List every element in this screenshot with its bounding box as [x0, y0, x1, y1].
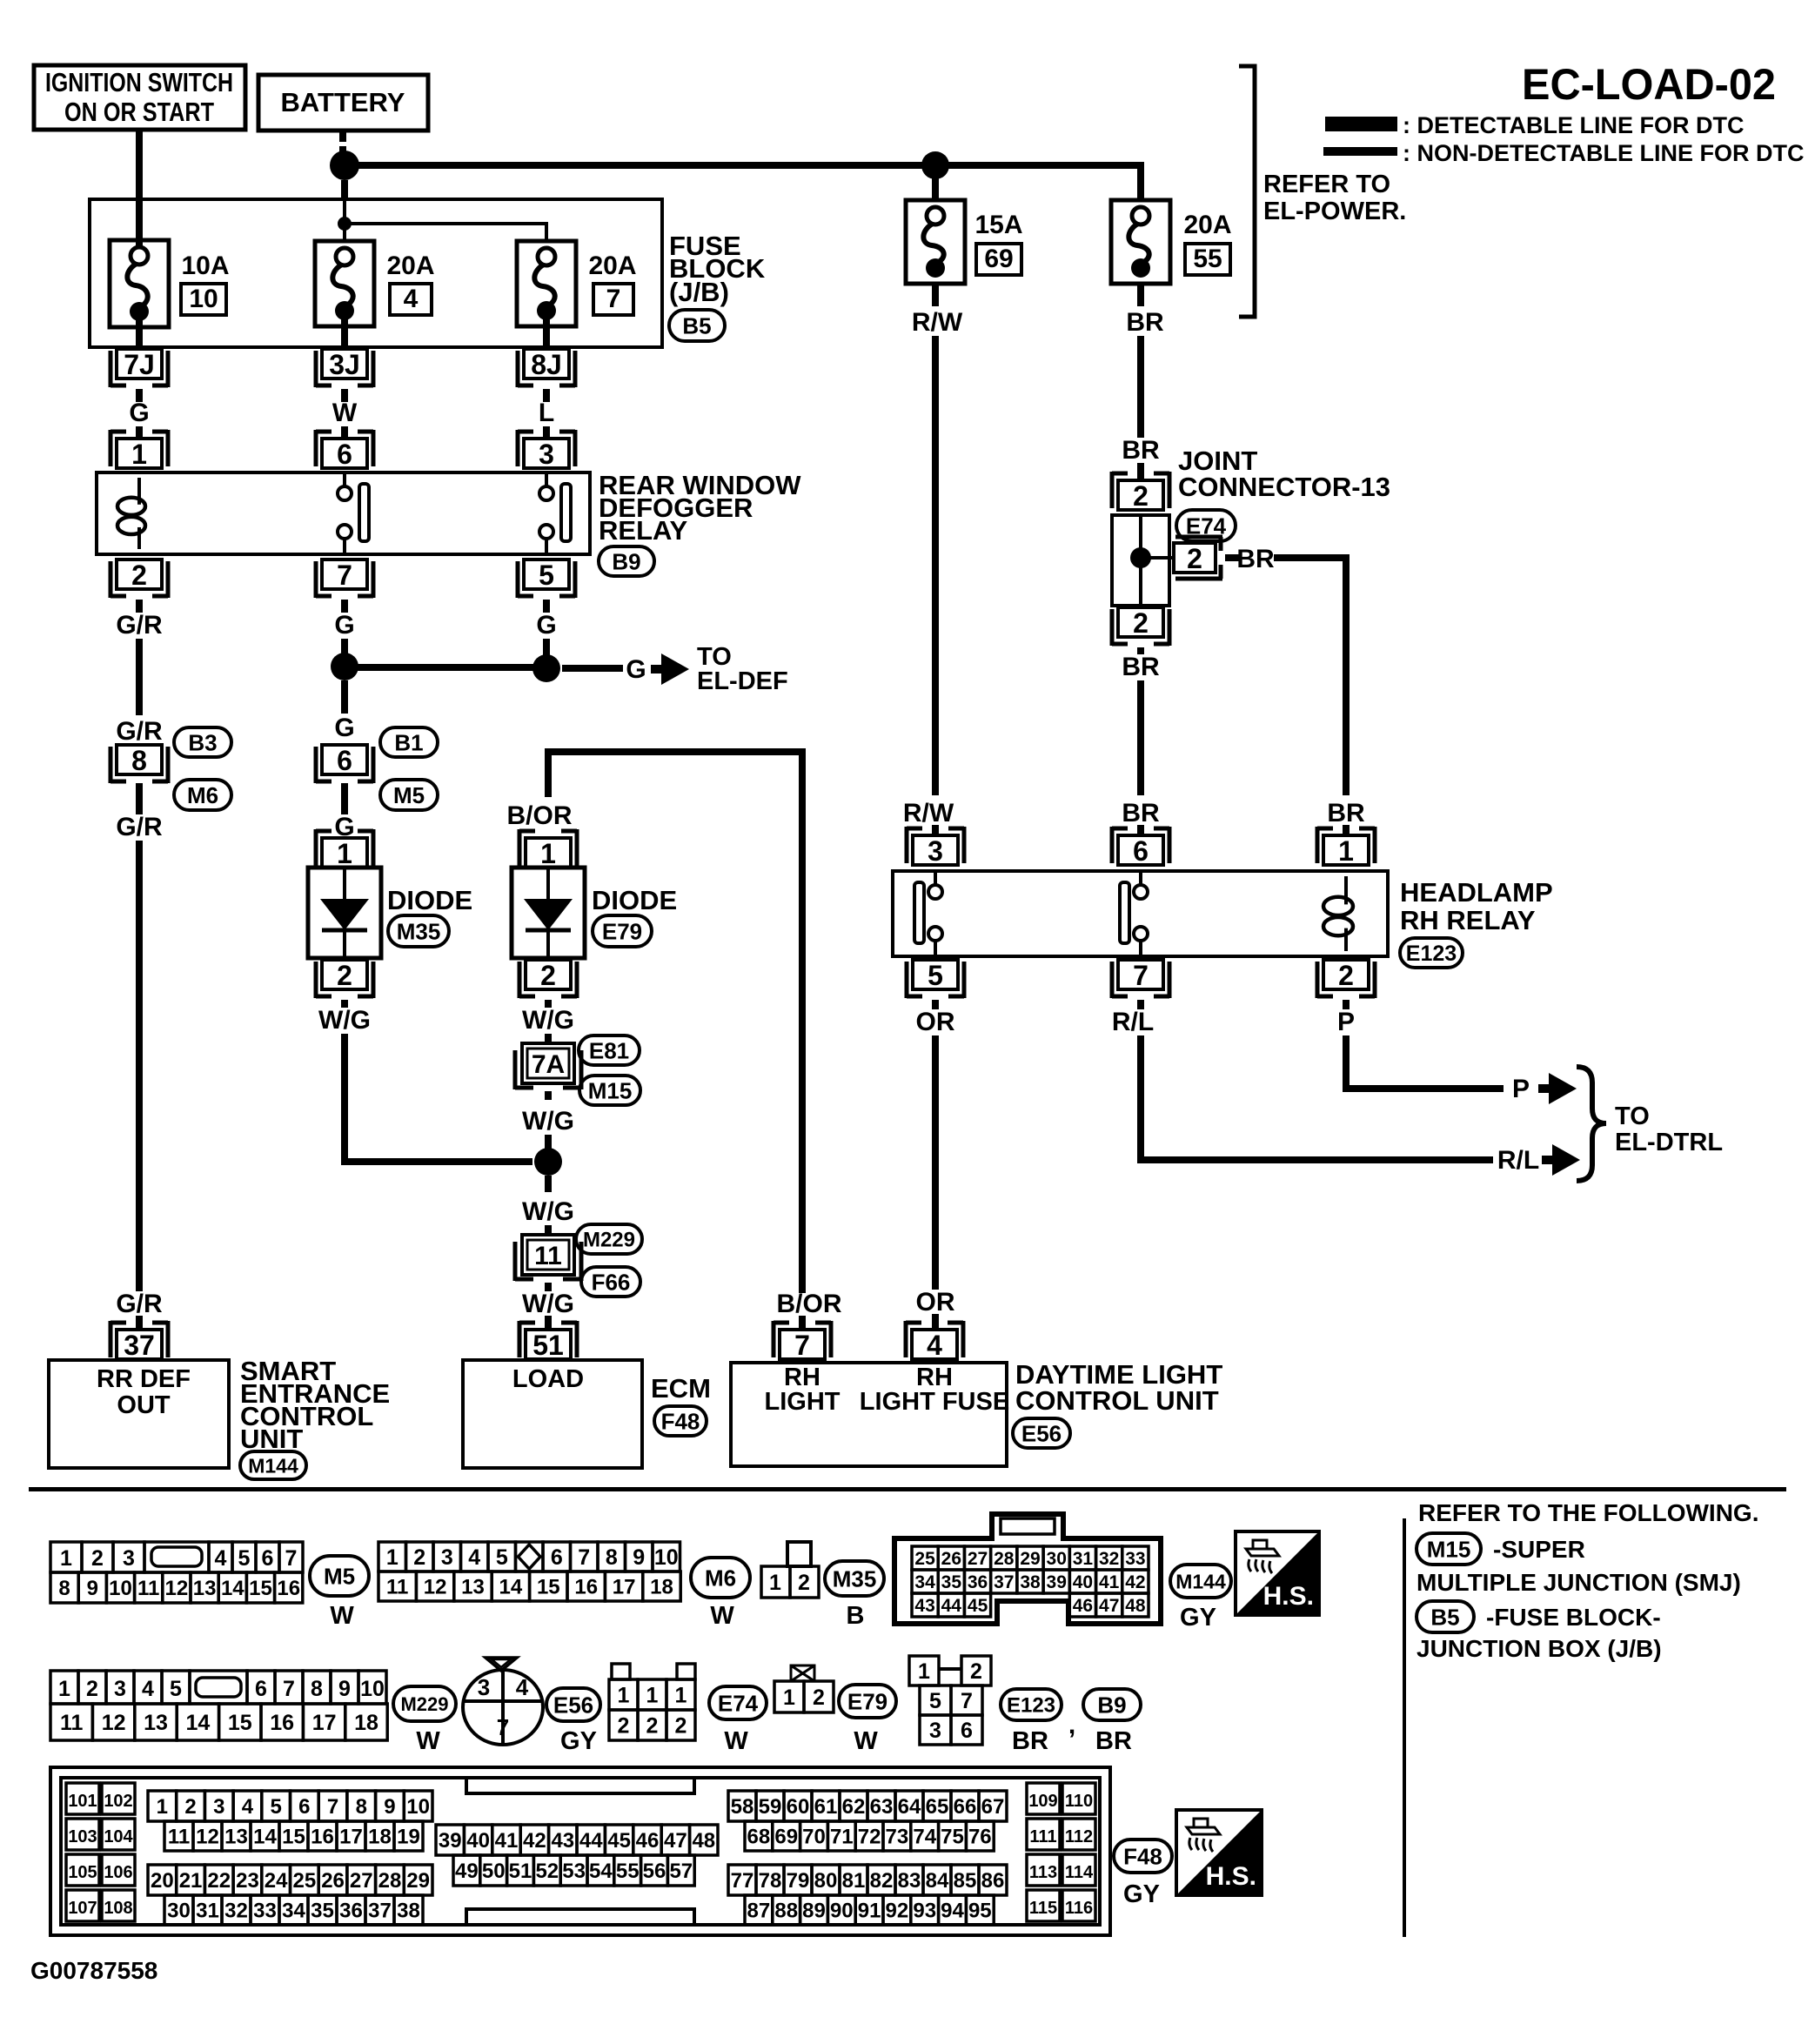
wire pin2 stub	[136, 600, 143, 613]
svg-text:112: 112	[1065, 1827, 1093, 1846]
oval E56 view	[546, 1688, 600, 1721]
svg-text:E56: E56	[553, 1692, 593, 1718]
legend non-detectable bar	[1323, 147, 1397, 156]
svg-text:67: 67	[981, 1795, 1005, 1819]
svg-text:W: W	[416, 1727, 440, 1755]
wire ignition to fuse block	[136, 130, 143, 249]
fuse 20A 55 label	[1183, 211, 1231, 275]
svg-text:P: P	[1512, 1075, 1530, 1103]
fuse block box J/B	[90, 199, 662, 347]
svg-text:EL-DTRL: EL-DTRL	[1615, 1129, 1723, 1156]
svg-text:31: 31	[1073, 1549, 1094, 1569]
svg-text:11: 11	[60, 1711, 84, 1735]
svg-text:70: 70	[802, 1826, 826, 1849]
svg-text:G: G	[626, 655, 646, 684]
connector pin 2 headlamp	[1317, 960, 1375, 998]
connector joint bottom 2	[1112, 607, 1169, 646]
svg-text:M35: M35	[397, 918, 441, 944]
defogger relay label	[599, 470, 801, 546]
oval M5 view	[310, 1556, 369, 1596]
ecm load label	[512, 1365, 584, 1393]
wire stub below 11	[545, 1283, 552, 1291]
svg-text:E74: E74	[718, 1690, 759, 1716]
svg-text:45: 45	[968, 1596, 988, 1616]
svg-text:GY: GY	[1123, 1880, 1160, 1908]
svg-text:1: 1	[918, 1659, 930, 1684]
svg-text:ON OR START: ON OR START	[64, 97, 214, 127]
svg-text:16: 16	[270, 1711, 294, 1735]
svg-text:: DETECTABLE LINE FOR DTC: : DETECTABLE LINE FOR DTC	[1403, 112, 1744, 138]
svg-text:26: 26	[321, 1869, 345, 1893]
bracket refer to el-power	[1239, 66, 1255, 317]
connector 7 daytime	[774, 1321, 831, 1361]
svg-text:1: 1	[675, 1684, 687, 1708]
svg-text:79: 79	[787, 1869, 810, 1893]
junction dot joint	[1130, 547, 1151, 568]
svg-text:BR: BR	[1095, 1727, 1132, 1755]
svg-text:3: 3	[123, 1546, 135, 1571]
connector view M144	[894, 1514, 1161, 1624]
svg-text:2: 2	[1338, 960, 1354, 991]
connector pin 3 relay	[518, 430, 575, 470]
svg-text:L: L	[539, 399, 554, 427]
svg-text:BR: BR	[1126, 308, 1164, 337]
svg-text:68: 68	[747, 1826, 771, 1849]
svg-text:49: 49	[455, 1860, 479, 1883]
svg-text:30: 30	[167, 1900, 191, 1923]
svg-text:7: 7	[578, 1545, 590, 1570]
connector pin2 diode E79	[519, 960, 577, 998]
label W/G E79 3	[522, 1197, 574, 1226]
svg-text:E79: E79	[602, 918, 642, 944]
svg-text:9: 9	[384, 1795, 395, 1819]
wire stub 7J	[136, 389, 143, 402]
label W under E74	[724, 1727, 748, 1755]
wire R/L corner	[1137, 1035, 1493, 1163]
smart entrance label	[240, 1356, 390, 1454]
svg-text:103: 103	[68, 1827, 97, 1846]
svg-text:69: 69	[774, 1826, 798, 1849]
svg-text:EC-LOAD-02: EC-LOAD-02	[1522, 60, 1776, 109]
svg-text:14: 14	[221, 1577, 244, 1600]
svg-text:BR: BR	[1122, 653, 1160, 681]
diode M35 label	[387, 885, 472, 915]
svg-text:REFER TO THE FOLLOWING.: REFER TO THE FOLLOWING.	[1418, 1499, 1758, 1526]
wire P corner	[1343, 1035, 1504, 1092]
svg-text:B/OR: B/OR	[507, 801, 573, 830]
svg-text:18: 18	[354, 1711, 378, 1735]
svg-text:77: 77	[731, 1869, 754, 1893]
label OR bottom	[916, 1288, 955, 1317]
wire into fuse 4 thin	[343, 229, 346, 243]
svg-text:B5: B5	[1430, 1604, 1459, 1630]
svg-text:M144: M144	[1175, 1570, 1226, 1592]
svg-text:6: 6	[1133, 835, 1149, 867]
svg-text:G: G	[129, 399, 149, 427]
connector pin 7 relay	[316, 560, 373, 598]
label G/R col A 1	[116, 611, 163, 640]
svg-text:5: 5	[929, 1689, 941, 1713]
svg-text:7: 7	[497, 1714, 509, 1740]
connector 7J	[111, 349, 168, 387]
wire stub joint right	[1225, 554, 1239, 561]
oval B9 view	[1083, 1689, 1141, 1720]
svg-text:2: 2	[646, 1714, 659, 1739]
svg-text:3: 3	[213, 1795, 224, 1819]
label BR top	[1126, 308, 1164, 337]
svg-text:5: 5	[238, 1546, 251, 1571]
svg-text:12: 12	[165, 1577, 189, 1600]
svg-text:86: 86	[981, 1869, 1005, 1893]
svg-text:6: 6	[255, 1677, 267, 1701]
svg-text:9: 9	[87, 1577, 98, 1600]
svg-text:78: 78	[759, 1869, 782, 1893]
label W col B	[332, 399, 358, 427]
smj text	[1417, 1569, 1741, 1596]
svg-text:DIODE: DIODE	[592, 885, 677, 915]
wire stub to pin4	[932, 1314, 939, 1330]
svg-text:16: 16	[574, 1576, 598, 1599]
oval E74 view	[709, 1686, 767, 1719]
connector pin 2 relay	[111, 560, 168, 598]
svg-text:58: 58	[731, 1795, 754, 1819]
svg-text:6: 6	[337, 745, 352, 776]
wire inside block col B thin	[343, 199, 346, 218]
svg-text:2: 2	[540, 960, 556, 991]
svg-text:1: 1	[783, 1685, 795, 1710]
svg-text:B/OR: B/OR	[777, 1290, 842, 1318]
svg-text:W: W	[724, 1727, 748, 1755]
label G/R col A 4	[116, 1290, 163, 1318]
svg-text:M6: M6	[705, 1565, 736, 1591]
svg-text:1: 1	[646, 1684, 659, 1708]
svg-text:8: 8	[131, 745, 147, 776]
svg-text:7: 7	[794, 1330, 810, 1361]
arrow P	[1538, 1073, 1577, 1104]
svg-text:111: 111	[1029, 1827, 1056, 1846]
wire fuse3 to 8J	[543, 319, 550, 349]
svg-text:59: 59	[759, 1795, 782, 1819]
svg-text:R/W: R/W	[912, 308, 963, 337]
svg-text:44: 44	[941, 1596, 962, 1616]
svg-text:2: 2	[1133, 480, 1149, 512]
svg-text:E123: E123	[1007, 1694, 1055, 1718]
connector joint top 2	[1112, 472, 1169, 512]
wire G/R down colA	[136, 639, 143, 715]
wire BR to joint	[1137, 336, 1144, 438]
svg-text:105: 105	[68, 1863, 97, 1882]
wire BR corner right	[1274, 554, 1350, 795]
label R/W bottom	[903, 799, 954, 828]
label B/OR bottom	[777, 1290, 842, 1318]
svg-text:JUNCTION BOX (J/B): JUNCTION BOX (J/B)	[1417, 1635, 1662, 1662]
label P arrow	[1512, 1075, 1530, 1103]
wire stub below 8	[136, 783, 143, 814]
svg-text:6: 6	[337, 439, 352, 470]
wire fuse1 to 7J	[136, 320, 143, 349]
svg-text:40: 40	[466, 1829, 490, 1853]
svg-text:LIGHT: LIGHT	[765, 1388, 841, 1416]
fuse 15A 69	[906, 200, 965, 284]
svg-text:18: 18	[368, 1826, 392, 1849]
label R/L arrow	[1497, 1146, 1539, 1175]
svg-text:4: 4	[927, 1330, 942, 1361]
svg-text:40: 40	[1073, 1572, 1093, 1592]
oval E81	[579, 1035, 640, 1065]
svg-text:F48: F48	[1123, 1843, 1162, 1869]
svg-text:31: 31	[196, 1900, 219, 1923]
label G col B 1	[334, 611, 354, 640]
svg-text:HEADLAMP: HEADLAMP	[1400, 877, 1553, 908]
svg-text:74: 74	[913, 1826, 936, 1849]
connector pin1 diode M35	[316, 829, 373, 869]
svg-text:20A: 20A	[588, 251, 636, 280]
svg-text:3: 3	[441, 1545, 453, 1570]
svg-text:101: 101	[68, 1792, 97, 1811]
svg-text:W: W	[330, 1602, 354, 1630]
wire stub to 51	[545, 1316, 552, 1330]
svg-text:M5: M5	[324, 1563, 355, 1589]
wire G down to dot colB	[341, 639, 348, 654]
oval M5 small	[380, 780, 438, 810]
branch wire to fuse 7 thin	[345, 222, 546, 243]
svg-text:10A: 10A	[181, 251, 229, 280]
svg-text:5: 5	[928, 960, 943, 991]
svg-text:5: 5	[539, 560, 554, 591]
svg-text:114: 114	[1065, 1863, 1094, 1882]
svg-text:11: 11	[168, 1826, 190, 1849]
connector 8J	[518, 349, 575, 387]
connector view F48	[50, 1767, 1110, 1935]
svg-text:5: 5	[170, 1677, 182, 1701]
wire stub to 37	[136, 1316, 143, 1330]
svg-text:B: B	[847, 1602, 865, 1630]
oval E56 unit	[1013, 1418, 1070, 1448]
svg-text:2: 2	[675, 1714, 687, 1739]
svg-text:M144: M144	[248, 1454, 298, 1477]
connector view E123	[909, 1656, 991, 1745]
label G col C 1	[536, 611, 556, 640]
svg-text:83: 83	[898, 1869, 921, 1893]
connector pin 1 headlamp	[1317, 827, 1375, 867]
wire bus down to fuse 55	[1137, 165, 1144, 202]
svg-text:2: 2	[970, 1659, 982, 1684]
svg-text:8: 8	[58, 1577, 70, 1600]
junction dot G colC	[532, 654, 560, 682]
jb text	[1417, 1635, 1662, 1662]
svg-text:G/R: G/R	[116, 717, 163, 746]
svg-text:8: 8	[606, 1545, 618, 1570]
svg-text:88: 88	[774, 1900, 798, 1923]
daytime rh light fuse label	[860, 1364, 1009, 1416]
svg-text:,: ,	[1068, 1711, 1075, 1739]
svg-text:89: 89	[802, 1900, 826, 1923]
svg-text:REFER TO: REFER TO	[1263, 171, 1390, 198]
connector view E79	[774, 1665, 834, 1712]
svg-text:2: 2	[184, 1795, 196, 1819]
svg-text:1: 1	[769, 1571, 781, 1595]
connector 8 B3/M6	[111, 745, 168, 783]
svg-text:3: 3	[928, 835, 943, 867]
connector pin 6 relay	[316, 430, 373, 470]
svg-text:OR: OR	[916, 1288, 955, 1317]
wire stub fuse55	[1137, 284, 1144, 306]
svg-text:28: 28	[994, 1549, 1015, 1569]
svg-text:12: 12	[424, 1576, 447, 1599]
svg-text:54: 54	[589, 1860, 613, 1883]
title EC-LOAD-02	[1522, 60, 1776, 109]
wire stub joint bottom	[1137, 647, 1144, 654]
joint connector text	[1178, 446, 1390, 502]
svg-text:E123: E123	[1406, 942, 1457, 966]
svg-text:7: 7	[327, 1795, 338, 1819]
svg-text:5: 5	[496, 1545, 508, 1570]
legend non-detectable text	[1403, 140, 1804, 166]
svg-text:8: 8	[311, 1677, 323, 1701]
svg-text:BR: BR	[1327, 799, 1365, 828]
wire W/G horizontal to dot	[341, 1158, 532, 1165]
vertical divider	[1403, 1518, 1406, 1937]
svg-text:10: 10	[654, 1545, 679, 1570]
svg-text:113: 113	[1029, 1863, 1057, 1882]
oval E123 relay	[1400, 938, 1463, 968]
fuse block oval B5	[669, 310, 725, 341]
svg-text:55: 55	[1193, 245, 1222, 273]
connector view M229	[50, 1671, 387, 1740]
svg-text:13: 13	[461, 1576, 485, 1599]
svg-text:E81: E81	[589, 1037, 629, 1063]
connector pin 5 headlamp	[907, 960, 964, 998]
label W under M6	[710, 1602, 734, 1630]
svg-text:1: 1	[386, 1545, 398, 1570]
svg-text:2: 2	[86, 1677, 98, 1701]
svg-text:H.S.: H.S.	[1263, 1582, 1314, 1611]
wire battery to junction	[339, 131, 346, 155]
svg-text:46: 46	[1073, 1596, 1093, 1616]
svg-text:39: 39	[1047, 1572, 1067, 1592]
svg-text:3: 3	[539, 439, 554, 470]
wire fuse2 to 3J	[341, 319, 348, 349]
wire bus horizontal	[352, 162, 1144, 169]
svg-text:LIGHT FUSE: LIGHT FUSE	[860, 1388, 1009, 1416]
fuse block label	[669, 231, 766, 307]
connector pin 7 headlamp	[1112, 960, 1169, 998]
wire stub below M35	[341, 1000, 348, 1008]
svg-text:20A: 20A	[386, 251, 434, 280]
connector 6 B1/M5	[316, 745, 373, 783]
connector pin2 diode M35	[316, 960, 373, 998]
wire G junction horizontal	[345, 664, 546, 671]
svg-text:G: G	[334, 611, 354, 640]
svg-text:F48: F48	[661, 1408, 700, 1434]
oval M229 view	[393, 1686, 456, 1721]
smart entrance pin label	[97, 1365, 191, 1419]
svg-text:72: 72	[858, 1826, 881, 1849]
svg-text:35: 35	[311, 1900, 334, 1923]
daytime light control unit box	[731, 1363, 1007, 1466]
svg-text:1: 1	[337, 838, 352, 869]
junction dot bus at R/W	[921, 151, 949, 179]
svg-text:BR: BR	[1236, 545, 1275, 573]
svg-text:90: 90	[830, 1900, 854, 1923]
svg-text:52: 52	[535, 1860, 559, 1883]
daytime label	[1015, 1359, 1222, 1416]
wire pin5 stub	[543, 600, 550, 613]
svg-text:26: 26	[941, 1549, 961, 1569]
headlamp relay label	[1400, 877, 1553, 935]
label W/G E79 2	[522, 1107, 574, 1136]
svg-text:10: 10	[109, 1577, 132, 1600]
svg-text:M15: M15	[588, 1077, 633, 1103]
svg-text:102: 102	[104, 1792, 132, 1811]
svg-text:22: 22	[207, 1869, 231, 1893]
connector view M35	[761, 1542, 819, 1598]
ecm label	[651, 1373, 711, 1404]
svg-text:51: 51	[532, 1330, 564, 1361]
svg-text:32: 32	[1099, 1549, 1119, 1569]
svg-text:6: 6	[961, 1719, 973, 1743]
svg-text:-SUPER: -SUPER	[1493, 1536, 1585, 1563]
label W under E79	[854, 1727, 878, 1755]
svg-text:E56: E56	[1021, 1420, 1062, 1446]
svg-text:116: 116	[1065, 1899, 1093, 1918]
svg-text:B3: B3	[188, 729, 217, 755]
wire long G/R colA	[136, 841, 143, 1291]
label W/G E79 4	[522, 1290, 574, 1318]
connector 51	[519, 1321, 577, 1361]
svg-text:48: 48	[692, 1829, 715, 1853]
svg-text:37: 37	[368, 1900, 392, 1923]
svg-text:4: 4	[468, 1545, 480, 1570]
label G col A	[129, 399, 149, 427]
svg-text:7: 7	[285, 1546, 298, 1571]
svg-text:3: 3	[929, 1719, 941, 1743]
svg-text:2: 2	[131, 560, 147, 591]
wire stub B/OR to pin7	[799, 1316, 806, 1330]
svg-text:47: 47	[1099, 1596, 1119, 1616]
svg-text:E79: E79	[847, 1688, 887, 1714]
svg-text:30: 30	[1047, 1549, 1067, 1569]
svg-text:CONNECTOR-13: CONNECTOR-13	[1178, 472, 1390, 502]
label BR joint right	[1236, 545, 1275, 573]
svg-text:M35: M35	[833, 1565, 877, 1592]
oval M144 unit	[240, 1451, 306, 1479]
label TO EL-DTRL	[1615, 1102, 1723, 1156]
fuse 20A 4	[315, 241, 374, 326]
svg-text:9: 9	[633, 1545, 645, 1570]
svg-text:27: 27	[350, 1869, 373, 1893]
svg-text:47: 47	[664, 1829, 687, 1853]
svg-text:36: 36	[339, 1900, 363, 1923]
fuse 10A 10	[110, 240, 169, 327]
svg-text:41: 41	[495, 1829, 519, 1853]
svg-text:GY: GY	[1180, 1604, 1216, 1632]
svg-text:11: 11	[386, 1576, 408, 1599]
svg-text:16: 16	[277, 1577, 300, 1600]
svg-text:55: 55	[616, 1860, 640, 1883]
svg-text:69: 69	[984, 245, 1013, 273]
svg-text:7: 7	[606, 285, 621, 313]
svg-text:42: 42	[523, 1829, 546, 1853]
oval M35 view	[825, 1561, 884, 1596]
svg-text:B9: B9	[1097, 1692, 1126, 1718]
svg-text:W: W	[332, 399, 358, 427]
wire stub L to pin3	[543, 389, 550, 440]
svg-text:B5: B5	[682, 312, 711, 338]
svg-text:51: 51	[509, 1860, 532, 1883]
svg-text:W/G: W/G	[522, 1290, 574, 1318]
ecm box	[463, 1360, 642, 1468]
